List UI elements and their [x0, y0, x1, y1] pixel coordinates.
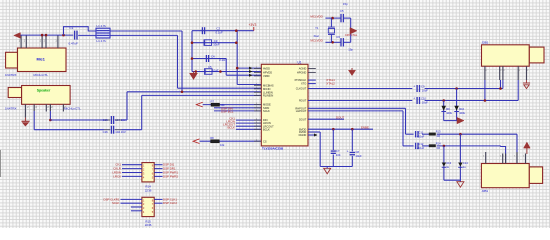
svg-text:Speaker: Speaker [37, 88, 51, 92]
svg-text:C15: C15 [103, 118, 109, 122]
svg-text:+10uF: +10uF [417, 134, 425, 138]
svg-text:+10uF: +10uF [417, 146, 425, 150]
svg-text:LRCK: LRCK [113, 174, 121, 178]
svg-text:BCLK: BCLK [227, 126, 235, 130]
svg-text:AGND: AGND [299, 67, 307, 71]
svg-text:2236: 2236 [145, 188, 152, 192]
svg-text:0.47uF: 0.47uF [69, 42, 79, 46]
svg-text:C14: C14 [463, 161, 468, 165]
svg-text:10k: 10k [220, 143, 225, 147]
svg-text:0.1uF: 0.1uF [216, 30, 223, 34]
svg-text:1u: 1u [446, 165, 449, 169]
svg-text:XTI/MCLK: XTI/MCLK [294, 78, 306, 82]
svg-text:15p: 15p [348, 47, 353, 51]
svg-text:C10: C10 [421, 96, 426, 100]
svg-text:+: + [413, 96, 415, 100]
svg-text:10uF: 10uF [212, 69, 219, 73]
svg-text:10uF: 10uF [355, 154, 362, 158]
svg-text:R14: R14 [436, 141, 441, 145]
svg-text:100k: 100k [459, 111, 465, 115]
svg-text:C6: C6 [336, 35, 340, 39]
svg-text:ENBE: ENBE [361, 125, 369, 129]
svg-text:Y1: Y1 [315, 26, 319, 30]
svg-text:C16: C16 [103, 130, 109, 134]
svg-text:C9: C9 [421, 84, 425, 88]
svg-text:+3V3: +3V3 [249, 23, 257, 27]
svg-text:XTO: XTO [301, 82, 306, 86]
svg-text:HPGND: HPGND [297, 71, 306, 75]
svg-text:10uF: 10uF [422, 101, 428, 105]
svg-text:10uF: 10uF [422, 89, 428, 93]
svg-text:15p: 15p [343, 2, 348, 6]
svg-text:CS: CS [263, 139, 267, 143]
svg-text:L1 4.7k: L1 4.7k [97, 39, 107, 43]
svg-text:AVDD: AVDD [263, 67, 270, 71]
svg-text:TLV320AIC23B: TLV320AIC23B [262, 147, 284, 151]
svg-text:C4: C4 [211, 54, 215, 58]
svg-text:DGND: DGND [299, 133, 307, 137]
svg-text:DSP CLK2: DSP CLK2 [163, 201, 177, 205]
svg-text:SCLK: SCLK [112, 201, 120, 205]
svg-text:J3B1: J3B1 [481, 189, 488, 193]
svg-text:0R: 0R [437, 134, 440, 138]
svg-text:CRYSTAL: CRYSTAL [345, 33, 358, 37]
svg-text:DSP PWR2: DSP PWR2 [163, 174, 178, 178]
svg-text:1u: 1u [463, 165, 466, 169]
svg-text:0R: 0R [437, 146, 440, 150]
svg-text:VMID: VMID [263, 74, 270, 78]
svg-text:100k: 100k [446, 111, 452, 115]
svg-text:LHPOUT: LHPOUT [296, 109, 307, 113]
svg-text:R9: R9 [446, 107, 450, 111]
svg-text:R8: R8 [210, 136, 214, 140]
svg-text:J2B1: J2B1 [482, 41, 489, 45]
svg-text:C13: C13 [446, 161, 451, 165]
svg-text:ROUT: ROUT [299, 99, 307, 103]
svg-text:C5: C5 [340, 9, 344, 13]
svg-text:U1: U1 [298, 60, 302, 64]
svg-text:DSP BCL: DSP BCL [221, 110, 234, 114]
svg-text:1N4TRX: 1N4TRX [5, 106, 17, 110]
svg-text:XTAL2: XTAL2 [326, 82, 335, 86]
svg-text:Mic1: Mic1 [36, 57, 44, 61]
svg-text:Xtal: Xtal [314, 34, 319, 38]
svg-text:+: + [347, 150, 349, 154]
svg-text:DOUT: DOUT [299, 117, 307, 121]
svg-text:1N4TRX: 1N4TRX [5, 73, 17, 77]
svg-text:HPVDD: HPVDD [263, 71, 272, 75]
svg-text:MICHLnCTL: MICHLnCTL [64, 106, 81, 110]
svg-text:2236: 2236 [145, 223, 152, 227]
svg-text:RLINEIN: RLINEIN [263, 94, 273, 98]
svg-text:+: + [413, 84, 415, 88]
svg-text:SCLK: SCLK [263, 109, 270, 113]
svg-text:DOUT: DOUT [336, 115, 344, 119]
svg-text:MCLVDD: MCLVDD [310, 39, 323, 43]
svg-text:R13: R13 [436, 130, 441, 134]
svg-text:R10: R10 [459, 107, 464, 111]
svg-text:BCLK: BCLK [263, 127, 270, 131]
svg-text:MICIN: MICIN [263, 87, 270, 91]
svg-text:L1 4.7k: L1 4.7k [97, 24, 107, 28]
svg-text:R7: R7 [211, 99, 215, 103]
svg-text:MICBIAS: MICBIAS [263, 83, 274, 87]
svg-text:104: 104 [336, 153, 341, 157]
svg-text:104 16V: 104 16V [115, 130, 126, 134]
svg-text:MIC1nCTL: MIC1nCTL [34, 73, 49, 77]
svg-text:CLKOUT: CLKOUT [296, 87, 307, 91]
svg-text:MCLVDD: MCLVDD [310, 14, 323, 18]
svg-text:10uF: 10uF [213, 43, 220, 47]
